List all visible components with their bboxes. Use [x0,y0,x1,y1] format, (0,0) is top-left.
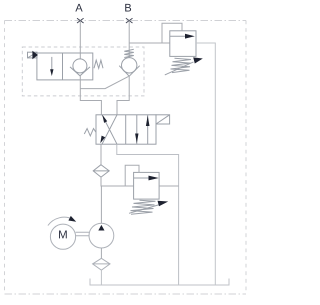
node B label [125,4,131,12]
directional valve DV1 (4/2) body [96,115,156,144]
relief valve RV2 inlet wire [101,185,133,187]
wire: filter to pump [100,177,102,223]
manifold enclosure (dashed box) [22,47,144,96]
wire: CV2 outlet down to valve [117,76,129,115]
wire: B branch to relief valve RV1 [129,42,170,44]
valve V1 (2/2 bypass valve with check, solenoid/pilot operated) [37,53,93,80]
wire: DV1 T port to tank drop [117,144,179,285]
port B crossing mark [126,18,133,23]
valve V1 left-cell flow arrow [51,57,53,70]
relief valve RV1 flow arrowhead [185,34,195,39]
valve V1 solenoid box [28,52,38,58]
valve V1 hydraulic pilot triangle [32,51,38,60]
relief valve RV2 adjustment arrow [129,205,159,213]
wire: B line down to pilot check [128,21,130,58]
motor M1 rotation arrow [48,217,73,225]
motor M1 label [59,230,67,238]
valve V1 check ball and seat (A passage) [70,59,90,76]
wire: DV1 P port down to filter [100,144,102,165]
check valve CV2 (pilot operated, B line) spring [124,49,134,57]
motor M1 circle [50,224,75,249]
relief valve RV1 spring [171,58,192,72]
pump P1 circle [89,223,114,248]
pump P1 flow triangle [98,225,104,231]
relief valve RV1 body [170,31,196,57]
relief valve RV1 adjustment arrow [165,62,194,75]
wire: RV2 outlet to tank drop [159,185,179,187]
wire: strainer to tank [100,270,102,285]
tank (reservoir) [90,279,229,286]
filter F1 (diamond) [93,165,109,177]
relief valve RV2 body [134,172,160,199]
directional valve DV1 spring [84,129,96,136]
relief valve RV2 spring [131,200,156,214]
wire: A check outlet down [80,76,101,115]
pilot line from A to CV2 seat [80,76,128,88]
relief valve RV1 pilot line [162,23,182,43]
port A crossing mark [77,18,84,23]
shaft coupling [76,232,89,236]
directional valve DV1 solenoid [156,115,170,124]
valve V1 return spring [94,60,103,68]
node A label [75,4,82,12]
directional valve DV1 crossed flow paths [102,115,117,144]
strainer F2 (diamond) [93,258,110,270]
relief valve RV2 pilot line [125,165,139,186]
check valve CV2 ball and seat [119,58,140,77]
enclosure boundary (chain line) [5,21,247,295]
wire: A line down to check valve [79,21,81,60]
directional valve DV1 parallel flow paths [137,115,148,144]
relief valve RV2 flow arrowhead [149,176,159,181]
wire: pump suction [100,248,102,258]
wire: RV1 outlet to tank drop [196,43,215,285]
